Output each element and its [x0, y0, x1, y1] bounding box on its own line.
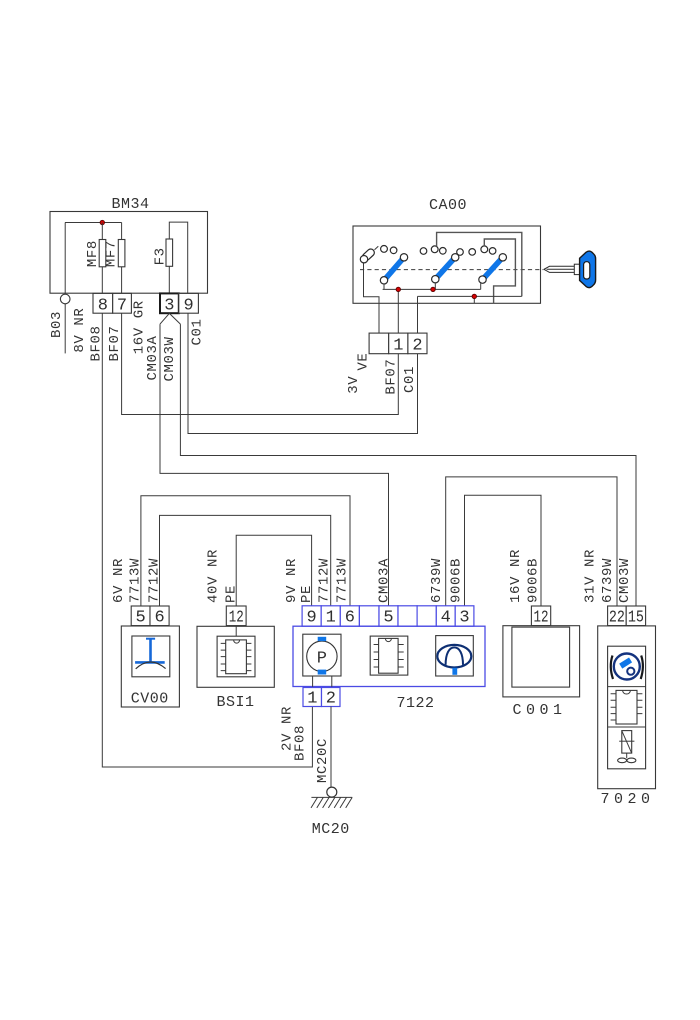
svg-text:1: 1: [326, 609, 336, 628]
lever 2 (blue): [432, 254, 459, 283]
fuse MF8: [85, 240, 106, 268]
svg-text:BF07: BF07: [107, 325, 123, 361]
connector C001: [531, 606, 550, 628]
svg-text:MC20C: MC20C: [315, 738, 331, 783]
svg-text:31V NR: 31V NR: [583, 549, 599, 603]
junction taper at BM34 pin3: [160, 313, 180, 324]
wire MF7 branch: [121, 223, 123, 294]
wire MF8 branch: [101, 223, 103, 294]
IC symbol 7122: [370, 636, 408, 675]
wire PE (BSI1 pin12 to 7122 pin9): [236, 535, 311, 606]
pin 4 7122: [436, 606, 455, 628]
pin 7 BM34: [113, 293, 132, 315]
body CV00: [121, 626, 179, 708]
junction dot CA00 c: [472, 294, 476, 298]
svg-text:6V NR: 6V NR: [111, 558, 127, 603]
pin 6 CV00: [150, 606, 169, 628]
junction dot CA00 b: [431, 287, 435, 291]
dashed axis line: [360, 269, 544, 271]
svg-text:2: 2: [326, 690, 336, 709]
svg-text:7122: 7122: [396, 695, 434, 712]
svg-text:7712W: 7712W: [317, 558, 333, 603]
svg-text:3V: 3V: [346, 376, 362, 394]
ground MC20: [311, 787, 352, 838]
lever 1 (blue): [380, 254, 407, 284]
pin blank 7122: [359, 606, 379, 626]
wire lever3 contact loop: [484, 239, 515, 303]
svg-text:7713W: 7713W: [128, 558, 144, 603]
control unit BSI1: [226, 606, 246, 628]
wire lever2 contact loop: [437, 232, 522, 296]
pin 1 bottom 7122: [303, 688, 322, 709]
pin 3 BM34 (bold): [160, 293, 179, 315]
wire 6739W (7122 pin4 to 7020 pin22): [446, 477, 617, 606]
key symbol: [544, 251, 596, 288]
steering lock CV00: [131, 606, 150, 628]
svg-text:5: 5: [383, 609, 393, 628]
off lever (white): [360, 246, 378, 263]
svg-text:9006B: 9006B: [449, 558, 465, 603]
svg-text:PE: PE: [299, 585, 315, 603]
svg-text:MF8: MF8: [85, 240, 101, 267]
svg-text:5: 5: [135, 609, 145, 628]
valve symbol 7020: [618, 731, 636, 763]
fusebox BM34: [50, 196, 208, 293]
pin 1 7122: [321, 606, 340, 628]
svg-text:BM34: BM34: [111, 196, 149, 213]
lever 3 (blue): [479, 254, 507, 284]
svg-text:8: 8: [98, 297, 108, 316]
wire BF07 (BM34 pin7 to CA00 pin1): [122, 313, 399, 414]
brake module 7020: [608, 606, 627, 628]
svg-text:MC20: MC20: [312, 821, 350, 838]
pin 3 7122: [455, 606, 474, 628]
svg-text:16V NR: 16V NR: [508, 549, 524, 603]
pin blank 7122 c: [417, 606, 436, 626]
svg-text:9: 9: [183, 297, 193, 316]
svg-text:VE: VE: [355, 353, 371, 371]
svg-text:7: 7: [117, 297, 127, 316]
svg-text:12: 12: [229, 609, 244, 628]
node B03: [49, 294, 70, 353]
svg-text:CM03W: CM03W: [617, 558, 633, 603]
wire internal top bus BM34: [65, 222, 122, 224]
pin 9 BM34: [179, 293, 199, 315]
pin 1 CA00: [389, 333, 408, 355]
svg-text:P: P: [317, 650, 327, 669]
svg-text:BSI1: BSI1: [216, 694, 254, 711]
svg-text:7713W: 7713W: [335, 558, 351, 603]
contact circles: [381, 246, 496, 256]
svg-text:1: 1: [307, 690, 317, 709]
svg-text:6739W: 6739W: [429, 558, 445, 603]
svg-text:CM03W: CM03W: [162, 336, 178, 381]
svg-text:7020: 7020: [600, 791, 654, 808]
svg-text:3: 3: [459, 609, 469, 628]
IC symbol 7020: [611, 690, 643, 724]
svg-text:F3: F3: [153, 247, 169, 265]
wire CM03A (BM34 pin3 to 7122 pin5): [160, 324, 389, 606]
svg-text:BF07: BF07: [384, 359, 400, 395]
svg-text:PE: PE: [224, 585, 240, 603]
pin 6 7122: [340, 606, 359, 628]
fuse F3: [153, 239, 173, 266]
pin 5 7122: [379, 606, 398, 628]
svg-text:C01: C01: [190, 318, 206, 345]
svg-text:9V NR: 9V NR: [284, 558, 300, 603]
svg-text:7712W: 7712W: [147, 558, 163, 603]
pin blank 7122 b: [398, 606, 417, 626]
svg-text:CM03A: CM03A: [377, 558, 393, 603]
pin 2 bottom 7122: [322, 688, 341, 709]
wire B03 feed: [64, 223, 66, 295]
wire F3 to pin 9 loop: [169, 222, 187, 293]
pin blank CA00: [369, 333, 389, 354]
wire 3V VE (contact to blank pin): [364, 263, 380, 333]
motor P symbol: [303, 634, 341, 687]
wire CA00 pin1 drop: [397, 289, 399, 333]
pin 2 CA00: [408, 333, 427, 355]
ignition switch CA00: [353, 197, 541, 303]
wire 7713W (CV00 pin5 to 7122 pin6): [141, 496, 350, 606]
svg-text:12: 12: [534, 609, 549, 628]
svg-text:9006B: 9006B: [526, 558, 542, 603]
pin 15 7020: [626, 606, 645, 628]
svg-text:CV00: CV00: [131, 691, 169, 708]
wire MC20C (7122 pin2 to ground): [330, 707, 332, 788]
wire C01 (BM34 pin9 to CA00 pin2): [188, 313, 418, 433]
svg-text:MF7: MF7: [104, 240, 120, 267]
svg-text:B03: B03: [49, 311, 65, 338]
body 7122: [293, 626, 485, 686]
wire bus A (levers to pin1): [383, 283, 481, 290]
wire CM03W (BM34 pin3 to 7020 pin15): [180, 324, 636, 606]
svg-text:22: 22: [609, 609, 625, 628]
svg-text:CM03A: CM03A: [145, 335, 161, 380]
instrument module 7122: [302, 606, 321, 628]
wire 7712W (CV00 pin6 to 7122 pin1): [160, 515, 331, 605]
svg-text:6: 6: [345, 609, 355, 628]
wire bus B (pin2 branch): [418, 296, 522, 333]
svg-text:1: 1: [393, 337, 403, 356]
svg-text:8V NR: 8V NR: [72, 308, 88, 353]
wire 9006B (7122 pin3 to C001 pin12): [465, 495, 542, 606]
svg-text:40V NR: 40V NR: [206, 549, 222, 603]
svg-text:C01: C01: [402, 366, 418, 393]
svg-text:CA00: CA00: [429, 197, 467, 214]
svg-text:6739W: 6739W: [600, 558, 616, 603]
brake warning symbol: [611, 654, 643, 680]
svg-text:6: 6: [154, 609, 164, 628]
svg-text:9: 9: [306, 609, 316, 628]
svg-text:4: 4: [441, 609, 451, 628]
junction dot BM34: [100, 220, 104, 224]
wire BF08 (BM34 pin8 to 7122 pin1 bottom): [102, 313, 312, 767]
svg-text:2: 2: [412, 337, 422, 356]
gauge symbol 7122: [436, 636, 474, 676]
junction dot CA00 a: [396, 287, 400, 291]
svg-text:BF08: BF08: [293, 725, 309, 761]
svg-text:3: 3: [164, 297, 174, 316]
pin 8 BM34: [93, 293, 113, 315]
fuse MF7: [104, 240, 125, 268]
svg-text:C001: C001: [512, 702, 566, 719]
svg-text:15: 15: [628, 609, 644, 628]
